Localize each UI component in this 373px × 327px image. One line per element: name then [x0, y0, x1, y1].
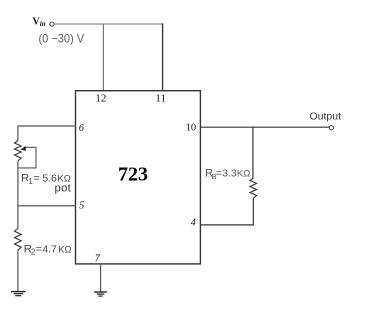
svg-text:11: 11 — [155, 92, 166, 104]
svg-text:6: 6 — [79, 123, 84, 134]
svg-text:(0 −30) V: (0 −30) V — [39, 31, 85, 45]
svg-text:4.7: 4.7 — [42, 244, 57, 255]
svg-text:10: 10 — [186, 123, 197, 134]
svg-text:KΩ: KΩ — [58, 244, 71, 255]
svg-text:5: 5 — [79, 200, 84, 211]
svg-text:12: 12 — [95, 92, 106, 104]
svg-text:=: = — [216, 167, 222, 179]
svg-text:KΩ: KΩ — [237, 168, 250, 179]
svg-text:=: = — [36, 243, 42, 255]
svg-text:pot: pot — [55, 183, 72, 195]
svg-text:723: 723 — [118, 164, 148, 186]
svg-text:4: 4 — [191, 217, 196, 228]
svg-text:3.3: 3.3 — [222, 168, 237, 179]
svg-text:=: = — [33, 173, 39, 185]
svg-text:Output: Output — [310, 111, 342, 123]
